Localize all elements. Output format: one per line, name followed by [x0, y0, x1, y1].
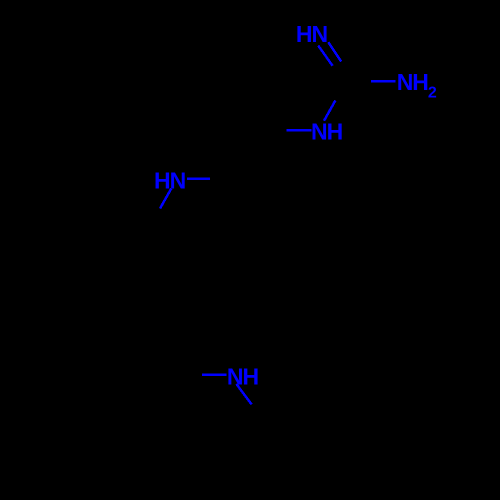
bond N5-C10 (to ring): [202, 374, 227, 376]
double bond C6=N1 line a: [318, 46, 332, 66]
svg-text:NH: NH: [227, 364, 259, 390]
double bond C6=N1 line b: [328, 42, 341, 61]
bond N5-C11: [236, 384, 251, 404]
bond C6-N2: [371, 80, 395, 82]
svg-text:HN: HN: [296, 21, 328, 47]
bond C6-N3: [324, 100, 335, 120]
bond N3-C7: [286, 129, 311, 131]
bond N4-C9 (to ring): [160, 189, 171, 209]
bond N4-C8: [187, 178, 210, 180]
svg-text:NH: NH: [311, 118, 343, 144]
